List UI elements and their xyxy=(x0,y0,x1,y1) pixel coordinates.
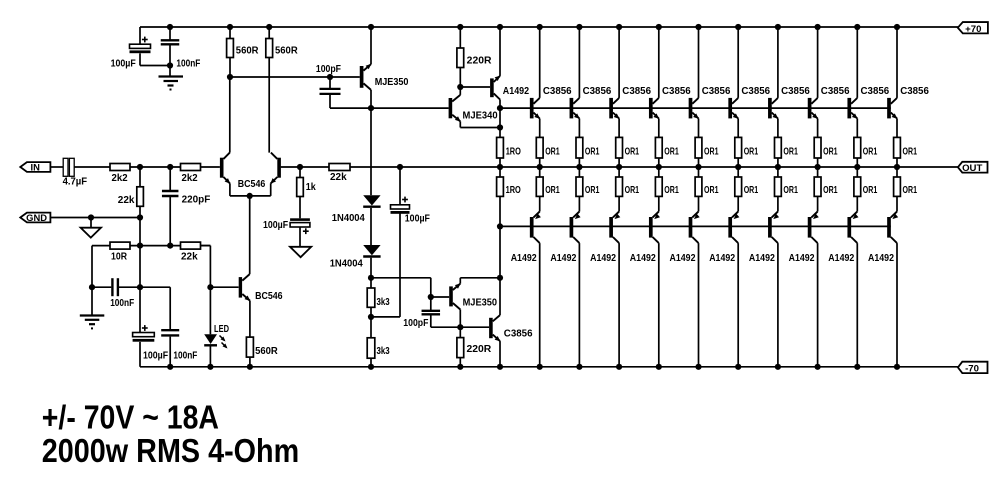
wire column3 collector from top rail xyxy=(578,27,580,98)
svg-text:A1492: A1492 xyxy=(749,253,775,264)
capacitor 100pF miller xyxy=(320,77,341,108)
svg-text:MJE350: MJE350 xyxy=(375,77,409,88)
junction dot 10R right xyxy=(137,243,143,249)
svg-text:MJE350: MJE350 xyxy=(463,297,498,308)
wire 10R row xyxy=(92,245,210,247)
junction dot mid rail column7 xyxy=(735,164,741,170)
transistor Q12 C3856 output #4 xyxy=(649,98,659,119)
wire column8 collector to bottom rail xyxy=(777,243,779,367)
junction dot diff tail xyxy=(247,193,253,199)
wire MJE340 base line xyxy=(330,107,449,109)
label 1k xyxy=(306,182,316,193)
junction dot MJE350 lower base xyxy=(428,294,434,300)
svg-text:10R: 10R xyxy=(111,251,127,262)
resistor 0R1 upper column10 xyxy=(854,137,861,158)
transistor Q5 A1492 top driver xyxy=(490,76,500,100)
junction dot 220R bottom / A1492 base xyxy=(457,84,463,90)
svg-text:-70: -70 xyxy=(965,364,979,375)
label 100uF xyxy=(111,59,136,70)
wire column4 collector from top rail xyxy=(618,27,620,98)
transistor Q8 MJE340 xyxy=(449,95,461,122)
junction dot bottom rail column9 xyxy=(815,364,821,370)
transistor Q22 A1492 output #4 xyxy=(649,212,660,244)
svg-text:A1492: A1492 xyxy=(503,86,530,97)
svg-text:2000w RMS 4-Ohm: 2000w RMS 4-Ohm xyxy=(42,432,299,469)
transistor Q4 MJE350 VAS xyxy=(360,64,372,90)
junction dot top rail column1 xyxy=(497,24,503,30)
wire column8 lower resistor to emitter xyxy=(777,196,779,211)
junction dot 1k top xyxy=(297,164,303,170)
wire Q3 emitter to 560R xyxy=(249,301,251,338)
label 1RO lower xyxy=(506,185,521,196)
junction dot top rail column10 xyxy=(854,24,860,30)
svg-text:2k2: 2k2 xyxy=(112,173,129,184)
label 220pF xyxy=(182,195,211,206)
svg-text:100nF: 100nF xyxy=(110,298,134,309)
wire column11 collector from top rail xyxy=(896,27,898,98)
junction dot top rail column6 xyxy=(695,24,701,30)
junction dot bottom rail column8 xyxy=(775,364,781,370)
wire left loop down xyxy=(91,246,93,316)
svg-text:OR1: OR1 xyxy=(823,185,838,196)
capacitor C 4.7uF input coupling xyxy=(63,158,74,176)
svg-text:OR1: OR1 xyxy=(545,146,560,157)
label C3856 output #6 xyxy=(741,86,770,97)
label C3856 predriver xyxy=(504,329,533,340)
wire driver collector down xyxy=(499,100,501,138)
junction dot 220R lower top xyxy=(457,324,463,330)
junction dot filter node x140 xyxy=(137,284,143,290)
wire column2 emitter to resistor xyxy=(539,119,541,138)
ground symbol chassis triangle xyxy=(81,218,101,238)
svg-text:1RO: 1RO xyxy=(506,146,521,157)
transistor Q19 A1492 output #1 xyxy=(530,212,541,244)
resistor 2k2 second series xyxy=(181,164,201,171)
label A1492 output #1 xyxy=(511,253,537,264)
svg-text:OR1: OR1 xyxy=(585,185,600,196)
label OR1 upper column9 xyxy=(823,146,838,157)
capacitor 100uF positive supply decoupling xyxy=(130,27,171,66)
junction dot 220pF top xyxy=(167,164,173,170)
LED arrow 2 xyxy=(222,343,228,349)
svg-text:C3856: C3856 xyxy=(781,86,810,97)
svg-text:22k: 22k xyxy=(330,172,347,183)
wire diff tail xyxy=(230,183,271,196)
svg-text:OR1: OR1 xyxy=(704,146,719,157)
transistor Q10 C3856 output #2 xyxy=(570,98,580,119)
svg-text:BC546: BC546 xyxy=(238,179,266,190)
label BC546 current source xyxy=(255,291,283,302)
junction dot top rail column3 xyxy=(576,24,582,30)
wire 560R left to VAS base xyxy=(230,76,360,78)
diode D2 1N4004 xyxy=(363,245,380,278)
transistor Q3 BC546 current source xyxy=(239,274,251,301)
wire column4 emitter to resistor xyxy=(618,119,620,138)
wire column3 emitter to resistor xyxy=(578,119,580,138)
junction dot GND at 22k xyxy=(137,214,143,220)
svg-text:560R: 560R xyxy=(275,45,298,56)
wire column5 collector from top rail xyxy=(658,27,660,98)
wire column10 emitter to resistor xyxy=(856,119,858,138)
transistor Q24 A1492 output #6 xyxy=(728,212,739,244)
wire column6 emitter to resistor xyxy=(698,119,700,138)
wire +70 supply rail xyxy=(140,26,958,28)
junction dot bottom rail column11 xyxy=(894,364,900,370)
resistor 10R ground lift xyxy=(110,242,130,249)
svg-text:A1492: A1492 xyxy=(868,253,894,264)
wire predriver collector xyxy=(499,278,501,315)
label A1492 output #7 xyxy=(749,253,775,264)
svg-text:220R: 220R xyxy=(467,55,492,66)
transistor Q25 A1492 output #7 xyxy=(768,212,779,244)
svg-text:C3856: C3856 xyxy=(543,86,572,97)
label A1492 output #4 xyxy=(630,253,656,264)
label OR1 lower column9 xyxy=(823,185,838,196)
svg-text:OR1: OR1 xyxy=(704,185,719,196)
transistor Q2 BC546 diff right xyxy=(270,153,281,184)
label 22k input shunt xyxy=(118,195,135,206)
resistor 0R1 upper column8 xyxy=(775,137,782,158)
wire VAS collector down to diode xyxy=(370,90,372,195)
svg-text:C3856: C3856 xyxy=(702,86,731,97)
svg-text:3k3: 3k3 xyxy=(377,346,391,357)
wire column3 to mid rail xyxy=(578,158,580,177)
resistor 0R1 upper column7 xyxy=(735,137,742,158)
resistor 0R1 lower column9 xyxy=(814,177,821,196)
resistor 0R1 lower column6 xyxy=(695,177,702,196)
svg-text:OR1: OR1 xyxy=(625,146,640,157)
transistor Q9 C3856 output #1 xyxy=(530,98,540,119)
svg-text:OR1: OR1 xyxy=(863,185,878,196)
wire column9 lower resistor to emitter xyxy=(817,196,819,211)
svg-text:A1492: A1492 xyxy=(828,253,854,264)
svg-text:OUT: OUT xyxy=(962,163,982,174)
label A1492 output #2 xyxy=(550,253,576,264)
wire column11 lower resistor to emitter xyxy=(896,196,898,211)
wire IN to coupling cap xyxy=(50,166,63,168)
wire column9 to mid rail xyxy=(817,158,819,177)
wire column7 lower resistor to emitter xyxy=(737,196,739,211)
label 1N4004 first xyxy=(332,213,366,224)
terminal GND xyxy=(20,212,50,223)
wire column4 to mid rail xyxy=(618,158,620,177)
label 100uF NFB xyxy=(263,220,288,231)
label 100uF rail filter xyxy=(143,350,168,361)
resistor 0R1 lower column10 xyxy=(854,177,861,196)
label C3856 output #3 xyxy=(622,86,651,97)
junction dot bottom rail column7 xyxy=(735,364,741,370)
label A1492 output #5 xyxy=(670,253,696,264)
svg-text:A1492: A1492 xyxy=(550,253,576,264)
capacitor 220pF input filter xyxy=(162,167,179,246)
ground symbol PSU top xyxy=(159,77,184,90)
label OR1 upper column2 xyxy=(545,146,560,157)
label 100nF ground lift xyxy=(110,298,134,309)
svg-text:C3856: C3856 xyxy=(861,86,890,97)
junction dot mid rail column8 xyxy=(775,164,781,170)
label C3856 output #5 xyxy=(702,86,731,97)
resistor 3k3 lower xyxy=(367,317,375,367)
wire top base row xyxy=(500,107,891,109)
svg-text:100µF: 100µF xyxy=(143,350,168,361)
label OR1 upper column4 xyxy=(625,146,640,157)
transistor Q17 C3856 output #9 xyxy=(847,98,857,119)
wire column10 lower resistor to emitter xyxy=(856,196,858,211)
LED D3 xyxy=(204,334,217,367)
junction dot bottom rail predriver xyxy=(497,364,503,370)
junction dot bottom rail column6 xyxy=(695,364,701,370)
svg-text:4.7µF: 4.7µF xyxy=(63,176,88,187)
junction dot 22k-220pF node xyxy=(167,243,173,249)
wire bottom base row xyxy=(500,225,891,227)
resistor 0R1 lower column8 xyxy=(775,177,782,196)
wire A1492 driver base xyxy=(460,86,490,88)
label 1N4004 second xyxy=(330,258,364,269)
junction dot top rail VAS xyxy=(368,24,374,30)
svg-text:GND: GND xyxy=(26,212,47,223)
ground symbol NFB triangle xyxy=(290,247,311,257)
svg-text:C3856: C3856 xyxy=(900,86,929,97)
label 100nF xyxy=(176,59,200,70)
label OR1 lower column10 xyxy=(863,185,878,196)
terminal +70 xyxy=(958,22,988,35)
svg-text:100µF: 100µF xyxy=(263,220,288,231)
wire column5 to mid rail xyxy=(658,158,660,177)
resistor 0R1 lower column5 xyxy=(655,177,662,196)
LED arrow 1 xyxy=(220,336,226,342)
svg-text:1RO: 1RO xyxy=(506,185,521,196)
label LED xyxy=(214,324,229,335)
wire column11 collector to bottom rail xyxy=(896,243,898,367)
junction dot top rail at 100nF xyxy=(167,24,173,30)
label OR1 upper column6 xyxy=(704,146,719,157)
resistor 0R1 upper column11 xyxy=(894,137,901,158)
label A1492 top driver xyxy=(503,86,530,97)
svg-text:+70: +70 xyxy=(965,24,981,35)
label 10R xyxy=(111,251,127,262)
svg-text:A1492: A1492 xyxy=(590,253,616,264)
wire filter node to 100nF2 xyxy=(140,286,170,288)
svg-text:OR1: OR1 xyxy=(783,185,798,196)
junction dot mid rail column10 xyxy=(854,164,860,170)
label 560R right xyxy=(275,45,298,56)
label C3856 output #8 xyxy=(821,86,850,97)
transistor Q21 A1492 output #3 xyxy=(609,212,620,244)
label OR1 lower column5 xyxy=(664,185,679,196)
svg-text:1N4004: 1N4004 xyxy=(330,258,364,269)
svg-text:3k3: 3k3 xyxy=(377,297,391,308)
wire column5 collector to bottom rail xyxy=(658,243,660,367)
junction dot top rail column4 xyxy=(616,24,622,30)
capacitor 100nF rail filter xyxy=(161,287,179,367)
junction dot 100uF bias top xyxy=(397,164,403,170)
junction dot predriver emitter node xyxy=(497,275,503,281)
label 100pF lower xyxy=(403,318,428,329)
resistor 0R1 lower column7 xyxy=(735,177,742,196)
svg-text:OR1: OR1 xyxy=(625,185,640,196)
wire column5 emitter to resistor xyxy=(658,119,660,138)
label OR1 upper column11 xyxy=(903,146,918,157)
wire 560R to bottom rail xyxy=(249,357,251,367)
junction dot mid rail column2 xyxy=(537,164,543,170)
label 3k3 lower xyxy=(377,346,391,357)
label MJE350 VAS xyxy=(375,77,409,88)
ground symbol left xyxy=(80,316,105,329)
junction dot mid rail column6 xyxy=(695,164,701,170)
junction dot bottom rail column5 xyxy=(656,364,662,370)
label BC546 diff pair xyxy=(238,179,266,190)
junction dot mid rail column1 xyxy=(497,164,503,170)
junction dot bottom rail LED xyxy=(207,364,213,370)
label C3856 output #7 xyxy=(781,86,810,97)
wire GND to node x140 xyxy=(50,217,140,219)
label OR1 lower column11 xyxy=(903,185,918,196)
svg-text:C3856: C3856 xyxy=(741,86,770,97)
svg-text:LED: LED xyxy=(214,324,229,335)
junction dot bottom rail column4 xyxy=(616,364,622,370)
junction dot bottom base row at column1 xyxy=(497,223,503,229)
svg-text:C3856: C3856 xyxy=(821,86,850,97)
wire MJE340 emitter to column1 xyxy=(460,121,500,127)
label 100pF miller xyxy=(316,64,341,75)
label 100uF bias xyxy=(405,214,430,225)
svg-text:IN: IN xyxy=(31,162,41,173)
caption line 1 xyxy=(42,399,219,436)
svg-text:22k: 22k xyxy=(118,195,135,206)
wire column4 collector to bottom rail xyxy=(618,243,620,367)
resistor 22k input shunt xyxy=(137,167,144,246)
label 560R current source xyxy=(255,346,278,357)
junction dot bottom rail column3 xyxy=(576,364,582,370)
junction dot top rail column5 xyxy=(656,24,662,30)
svg-text:1N4004: 1N4004 xyxy=(332,213,366,224)
svg-text:560R: 560R xyxy=(255,346,278,357)
wire Q3 collector to diff tail xyxy=(249,196,251,274)
wire -70 negative rail xyxy=(140,366,958,368)
wire column2 collector from top rail xyxy=(539,27,541,98)
transistor Q7 C3856 predriver xyxy=(489,315,500,341)
transistor Q1 BC546 diff left xyxy=(220,153,230,184)
resistor 560R left load xyxy=(227,27,234,77)
label 22k feedback xyxy=(181,251,198,262)
wire column1 res to mid rail xyxy=(499,158,501,177)
label A1492 output #6 xyxy=(709,253,735,264)
junction dot mid rail column4 xyxy=(616,164,622,170)
transistor Q14 C3856 output #6 xyxy=(728,98,738,119)
svg-text:1k: 1k xyxy=(306,182,316,193)
wire column8 to mid rail xyxy=(777,158,779,177)
junction dot bottom rail 3k3 xyxy=(368,364,374,370)
junction dot top rail column7 xyxy=(735,24,741,30)
svg-text:A1492: A1492 xyxy=(511,253,537,264)
junction dot 3k3 mid xyxy=(368,314,374,320)
wire MJE350 lower collector xyxy=(459,310,461,328)
transistor Q28 A1492 output #10 xyxy=(887,212,898,244)
svg-text:OR1: OR1 xyxy=(664,185,679,196)
label MJE350 lower xyxy=(463,297,498,308)
svg-text:OR1: OR1 xyxy=(823,146,838,157)
wire column7 collector to bottom rail xyxy=(737,243,739,367)
resistor 0R1 lower column2 xyxy=(536,177,543,196)
label OR1 lower column6 xyxy=(704,185,719,196)
resistor 0R1 lower column11 xyxy=(894,177,901,196)
svg-text:A1492: A1492 xyxy=(789,253,815,264)
terminal IN xyxy=(20,162,50,173)
wire x140 down to filter node xyxy=(139,246,141,288)
resistor 560R current source xyxy=(246,337,253,357)
junction dot top rail 560R left xyxy=(227,24,233,30)
label OR1 lower column3 xyxy=(585,185,600,196)
svg-text:22k: 22k xyxy=(181,251,198,262)
resistor 0R1 lower column3 xyxy=(576,177,583,196)
svg-text:OR1: OR1 xyxy=(664,146,679,157)
junction dot top rail column9 xyxy=(815,24,821,30)
junction dot GND chassis tap xyxy=(88,214,94,220)
svg-text:2k2: 2k2 xyxy=(182,173,199,184)
terminal OUT xyxy=(958,162,988,174)
wire OUT mid rail (right of differential pair) xyxy=(281,166,958,168)
wire column11 to mid rail xyxy=(896,158,898,177)
label 3k3 upper xyxy=(377,297,391,308)
svg-text:OR1: OR1 xyxy=(903,185,918,196)
wire 22k to LED branch xyxy=(201,246,211,335)
wire column7 collector from top rail xyxy=(737,27,739,98)
label 1RO upper xyxy=(506,146,521,157)
junction dot top rail 560R right xyxy=(266,24,272,30)
resistor 0R1 upper column3 xyxy=(576,137,583,158)
junction dot 100nF left xyxy=(89,284,95,290)
junction dot VAS collector / MJE340 base xyxy=(368,105,374,111)
junction dot bottom rail 560R xyxy=(247,364,253,370)
svg-text:+/- 70V ~ 18A: +/- 70V ~ 18A xyxy=(42,399,219,436)
resistor 3k3 upper xyxy=(367,278,375,317)
junction dot bottom rail column2 xyxy=(537,364,543,370)
junction dot bottom rail column10 xyxy=(854,364,860,370)
junction dot bottom rail 100nF xyxy=(167,364,173,370)
label OR1 lower column2 xyxy=(545,185,560,196)
wire VAS emitter to top rail xyxy=(370,27,372,64)
label OR1 upper column8 xyxy=(783,146,798,157)
label OR1 upper column7 xyxy=(744,146,759,157)
label 220R lower xyxy=(467,344,492,355)
resistor 22k feedback xyxy=(181,242,201,249)
resistor 0R1 upper column6 xyxy=(695,137,702,158)
svg-text:C3856: C3856 xyxy=(504,329,533,340)
transistor Q11 C3856 output #3 xyxy=(609,98,619,119)
junction dot bottom rail 220R xyxy=(457,364,463,370)
svg-text:OR1: OR1 xyxy=(585,146,600,157)
junction dot 100uF/100nF xyxy=(167,62,173,68)
transistor Q15 C3856 output #7 xyxy=(768,98,778,119)
wire column11 emitter to resistor xyxy=(896,119,898,138)
junction dot top rail 220R xyxy=(457,24,463,30)
svg-text:C3856: C3856 xyxy=(662,86,691,97)
junction dot D2 cathode node xyxy=(368,275,374,281)
diode D1 1N4004 xyxy=(363,195,380,245)
junction dot top base row at column1 xyxy=(497,105,503,111)
wire column10 collector from top rail xyxy=(856,27,858,98)
wire column3 collector to bottom rail xyxy=(578,243,580,367)
svg-text:A1492: A1492 xyxy=(630,253,656,264)
junction dot MJE340 emitter node xyxy=(497,124,503,130)
wire coupling cap to base of left BC546 xyxy=(74,166,220,168)
transistor Q6 MJE350 lower driver xyxy=(449,283,461,309)
transistor Q23 A1492 output #5 xyxy=(689,212,700,244)
wire MJE340 collector up xyxy=(459,87,461,95)
resistor 2k2 input series xyxy=(110,164,130,171)
wire column6 collector to bottom rail xyxy=(698,243,700,367)
resistor 0R1 upper column5 xyxy=(655,137,662,158)
